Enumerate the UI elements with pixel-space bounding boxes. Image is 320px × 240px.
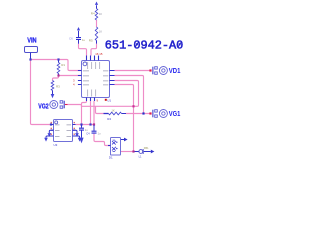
svg-text:R4: R4 [91, 12, 95, 16]
U1 pin name texts (tiny vertical, above bottom pins) [88, 90, 96, 97]
wire VIN net: long vertical down to U2 pin 1 [31, 60, 51, 125]
resistor R2 (vertical, second) [95, 27, 98, 41]
svg-text:U3: U3 [54, 143, 58, 147]
wire VIN net: port junction right and into IC left pin 1 [31, 60, 82, 71]
wire C3 bottom jog right to D1 pin [94, 134, 111, 146]
wire IC bottom pin1 jog left, down to U2 net [82, 101, 87, 125]
resistor R1 (vertical, top) [95, 9, 98, 20]
wire D1 bottom-right to ferrite tee [121, 151, 134, 153]
wire VG2 line drop to R5 [96, 106, 104, 113]
svg-text:1K: 1K [99, 12, 102, 16]
svg-text:R2: R2 [107, 117, 111, 121]
wire D1 top-right off-page arrow [121, 139, 125, 141]
U1 left pin stubs [78, 71, 82, 85]
wire R2 bottom hooking into IC top pin 2 [91, 44, 97, 56]
wire IC bottom pin2 down to U2 net [90, 101, 92, 125]
node junction U2 pin1 [50, 123, 52, 125]
resistor R5 (horizontal, VG1 line) [109, 112, 122, 115]
svg-text:1K: 1K [99, 30, 102, 34]
resistor R4 (vertical, to down arrow) [51, 81, 54, 91]
wire ferrite FB1 leads and off-page arrow [135, 151, 151, 153]
connector J2 VG1 coax jack [152, 110, 153, 118]
wire IC bottom pin3 down to C3 [93, 101, 95, 125]
capacitor C1 (vertical, feeds IC top pin 1) [76, 38, 81, 40]
power arrow up, above R1 [95, 2, 98, 5]
svg-text:1u: 1u [82, 38, 85, 42]
svg-text:1u: 1u [85, 128, 88, 132]
op-amp U2 (bottom-left IC) [54, 120, 73, 142]
wire between R1 and R2 [96, 20, 98, 27]
svg-text:9: 9 [97, 99, 99, 103]
U2 pin numbers (red, tiny) [51, 122, 52, 123]
power arrow down, below R4 [51, 94, 55, 98]
resistor R3 (vertical, from VIN rail) [58, 60, 60, 63]
svg-text:R5: R5 [89, 39, 93, 43]
svg-text:651-0942-A0: 651-0942-A0 [105, 39, 184, 53]
node junction U2 net at pin2 drop [89, 123, 91, 125]
U1 top pin stubs [87, 56, 99, 61]
op-amp U1 (central RF amplifier IC) [82, 61, 110, 98]
capacitor C2 on U2 net with ground arrow [81, 125, 83, 128]
node junction VIN tee [29, 58, 31, 60]
U1 pin name texts (tiny, left rows) [83, 71, 89, 85]
wire red stub at VG2 pin [65, 104, 68, 106]
node junction U2 net at C2 [80, 123, 82, 125]
wire VG2 horizontal into x=81.5 vertical [68, 105, 82, 108]
wire blue segment after R5 [122, 113, 127, 115]
node junction loop C on VG1 line (blue) [142, 112, 144, 114]
svg-text:C4: C4 [86, 132, 90, 136]
wire U2 top-right pin net [76, 124, 95, 126]
svg-text:U1: U1 [107, 99, 111, 103]
svg-text:1u: 1u [98, 132, 101, 136]
node junction at VD1 (red) [149, 69, 151, 71]
svg-text:D1: D1 [109, 156, 113, 159]
svg-text:1K: 1K [112, 108, 115, 112]
U1 bottom pin stubs [87, 98, 95, 102]
node junction bottom tee at ferrite line [132, 150, 134, 152]
wire IC right pin row4 long vertical to bottom net [115, 85, 134, 152]
wire R5 to VG1 [126, 113, 150, 115]
svg-text:4: 4 [73, 83, 75, 87]
svg-text:VG1: VG1 [169, 111, 181, 118]
U1 pin name texts (tiny vertical, under top pins) [88, 62, 100, 69]
wire R3 bottom junction to IC left pin 2 [59, 75, 82, 77]
wire IC right pin row2 loop down to VG1 line [115, 76, 144, 114]
ground hook U2 left pin 3 [46, 136, 54, 138]
U1 pin name texts (tiny, right rows) [103, 71, 108, 85]
node junction U2 net at C3 [93, 123, 95, 125]
U1 right pin stubs [110, 71, 115, 85]
svg-text:FB1: FB1 [144, 146, 149, 150]
wire blue segment before R5 [104, 113, 109, 115]
wire jog from R3 bottom down-left to R4 [53, 76, 59, 81]
ground arrow below C2 [79, 138, 83, 144]
U2 left pin stubs [51, 125, 54, 137]
connector J1 VD1 coax jack [152, 67, 153, 75]
node junction R3 bottom [57, 74, 59, 76]
U1 pin-1 indicator circle [83, 62, 87, 66]
svg-text:15: 15 [99, 52, 103, 56]
inductor FB1 ferrite bead (bottom right) [139, 150, 143, 154]
svg-text:R1: R1 [61, 63, 65, 67]
slashed zero marks [135, 42, 182, 48]
ground hook U2 right pin 3 [73, 136, 80, 138]
port VIN symbol box [25, 47, 38, 53]
wire IC right pin row1 to VD1 [115, 70, 151, 72]
wire C1 bottom hooking into IC top pin 1 [79, 44, 87, 56]
svg-text:L1: L1 [139, 154, 142, 158]
svg-text:VIN: VIN [27, 37, 36, 44]
svg-text:VG2: VG2 [38, 103, 49, 110]
diode pack D1 (bottom centre box) [111, 138, 121, 156]
D1 left pin stub [108, 145, 111, 147]
node junction at VG1 (red) [149, 112, 151, 114]
svg-text:VD1: VD1 [169, 68, 181, 75]
ground hook U2 left pin 2 [49, 130, 53, 133]
power arrow up, above C1 [77, 27, 80, 30]
capacitor C3 on U2 net feeding D1 [93, 125, 95, 131]
ground hook U2 right pin 2 [73, 130, 78, 133]
svg-text:C6: C6 [69, 36, 73, 40]
U2 right pin stubs [73, 125, 76, 137]
node junction loop A crossing VG2 line [132, 105, 134, 107]
wire IC right pin row3 loop down then left to VG2 [82, 81, 139, 107]
node junction R3 top [57, 58, 59, 60]
svg-text:R3: R3 [56, 85, 60, 89]
U2 pin name texts tiny [55, 125, 71, 136]
